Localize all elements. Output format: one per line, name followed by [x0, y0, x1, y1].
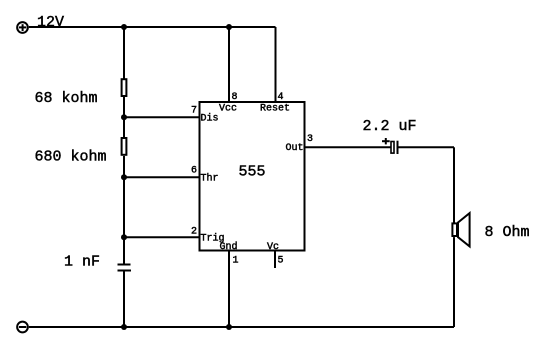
wire pin5 Vc open stub [274, 251, 276, 269]
svg-text:680 kohm: 680 kohm [35, 149, 107, 166]
wire to pin 6 Thr [124, 176, 200, 178]
svg-text:12V: 12V [37, 14, 64, 31]
wire right rail down to speaker [453, 147, 455, 222]
capacitor C2 2.2 uF polarized [391, 141, 398, 154]
node junction at pin2 wire [121, 234, 127, 240]
wire C1 to bottom rail [123, 271, 125, 328]
resistor R1 68 kohm [122, 79, 127, 96]
svg-text:1: 1 [233, 256, 239, 267]
resistor R2 680 kohm [122, 138, 127, 155]
svg-text:Vc: Vc [267, 242, 279, 253]
terminal + (12V supply, top-left) [17, 22, 28, 33]
terminal - (ground return, bottom-left) [17, 322, 28, 333]
op-amp U1 555 timer box [200, 102, 305, 251]
node junction top rail / pin8 [226, 24, 232, 30]
wire R2 down to capacitor C1 [123, 156, 125, 264]
svg-text:Out: Out [286, 143, 304, 154]
svg-text:8: 8 [232, 92, 238, 103]
capacitor C1 1 nF [118, 265, 132, 271]
wire pin1 Gnd to bottom rail [228, 251, 230, 328]
wire pin4 drop from top rail [275, 27, 277, 102]
wire speaker to bottom rail [453, 237, 455, 327]
speaker LS1 8 Ohm [452, 213, 469, 246]
svg-text:Reset: Reset [260, 104, 290, 115]
wire pin3 Out to capacitor C2 [305, 146, 391, 148]
svg-text:68 kohm: 68 kohm [35, 90, 98, 107]
wire to pin 7 Dis [124, 116, 200, 118]
svg-text:1 nF: 1 nF [64, 254, 100, 271]
svg-text:8 Ohm: 8 Ohm [485, 224, 530, 241]
svg-text:Thr: Thr [201, 173, 219, 185]
svg-text:6: 6 [191, 166, 197, 177]
wire R1 to R2 [123, 97, 125, 138]
svg-text:555: 555 [239, 164, 266, 181]
wire top rail [29, 26, 276, 28]
svg-text:2.2 uF: 2.2 uF [363, 118, 417, 135]
svg-text:7: 7 [191, 106, 197, 117]
svg-text:Vcc: Vcc [219, 104, 237, 115]
node junction top rail / resistor chain [121, 24, 127, 30]
svg-text:Dis: Dis [201, 113, 219, 125]
svg-text:5: 5 [278, 256, 284, 267]
wire from top rail down to R1 [123, 27, 125, 79]
polarity + mark [382, 138, 390, 144]
wire C2 to right rail [399, 146, 455, 148]
node junction at pin6 wire [121, 174, 127, 180]
svg-text:4: 4 [278, 92, 284, 103]
node junction bottom rail / pin1 [226, 324, 232, 330]
node junction at pin7 wire [121, 114, 127, 120]
wire bottom rail [29, 326, 454, 328]
wire pin8 drop from top rail [228, 27, 230, 102]
svg-text:2: 2 [191, 227, 197, 238]
svg-text:3: 3 [307, 134, 313, 145]
wire to pin 2 Trig [124, 236, 200, 238]
node junction bottom rail / C1 [121, 324, 127, 330]
